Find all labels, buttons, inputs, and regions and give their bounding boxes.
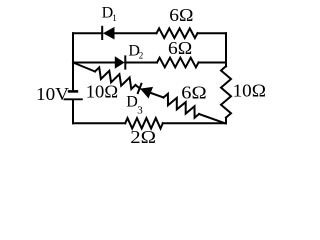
wire 6-ohm top to top-right corner	[198, 32, 227, 34]
wire right vertical lower	[225, 118, 227, 124]
wire 6-ohm diagonal to bottom-right corner	[199, 114, 225, 123]
wire top-left to D1	[73, 32, 102, 34]
svg-text:10V: 10V	[36, 84, 69, 104]
wire D3 to 6-ohm diagonal	[151, 93, 163, 97]
wire D2 to 6-ohm row2	[125, 62, 157, 64]
diode D2	[115, 55, 126, 69]
resistor 6-ohm diagonal	[164, 94, 200, 118]
wire D1 to 6-ohm top	[115, 32, 157, 34]
svg-text:2: 2	[139, 51, 144, 61]
svg-text:6Ω: 6Ω	[181, 83, 206, 103]
svg-text:3: 3	[137, 104, 143, 116]
resistor 10-ohm right vertical	[221, 66, 231, 117]
wire right vertical upper	[225, 33, 227, 66]
battery 10V	[64, 91, 83, 99]
resistor 6-ohm row2	[157, 58, 199, 68]
svg-text:D: D	[126, 93, 138, 110]
svg-text:1: 1	[112, 13, 117, 23]
wire bottom-left to 2-ohm	[73, 122, 125, 124]
svg-text:6Ω: 6Ω	[168, 38, 192, 58]
svg-text:10Ω: 10Ω	[233, 80, 266, 100]
wire 2-ohm to bottom-right corner	[163, 122, 226, 124]
svg-text:2Ω: 2Ω	[130, 127, 156, 147]
wire node C to 10-ohm diagonal	[73, 63, 95, 72]
svg-text:6Ω: 6Ω	[169, 5, 193, 25]
diode D3	[137, 83, 153, 99]
wire left vertical top	[72, 33, 74, 90]
wire node C to D2	[73, 62, 115, 64]
resistor 2-ohm	[125, 118, 163, 128]
svg-text:10Ω: 10Ω	[86, 81, 118, 101]
diode D1	[102, 26, 114, 40]
resistor 6-ohm top	[157, 28, 198, 38]
wire battery bottom to bottom-left corner	[72, 100, 74, 123]
resistor 10-ohm diagonal	[95, 67, 136, 89]
wire 6-ohm row2 to right vertical	[199, 62, 227, 64]
wire 10-ohm diagonal to D3	[136, 85, 141, 89]
